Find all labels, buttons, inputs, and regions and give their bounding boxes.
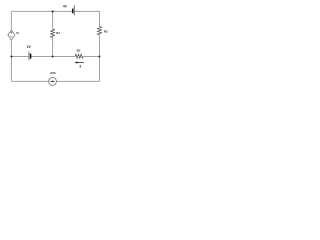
svg-text:R1: R1 [56, 31, 60, 35]
svg-text:R2: R2 [104, 29, 108, 33]
svg-text:3Ω: 3Ω [76, 48, 81, 52]
svg-text:20A: 20A [50, 71, 56, 75]
svg-text:5I: 5I [16, 31, 19, 35]
